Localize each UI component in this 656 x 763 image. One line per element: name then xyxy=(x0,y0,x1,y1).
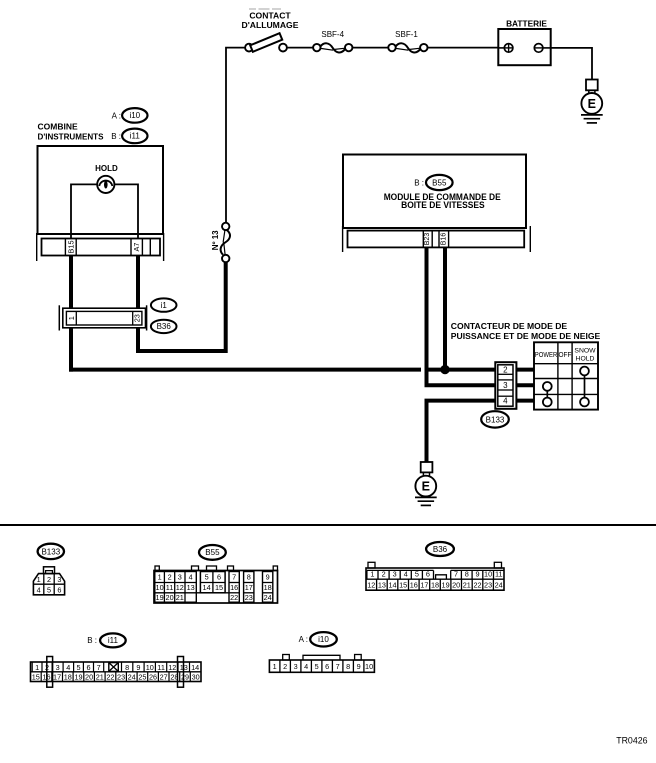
svg-text:7: 7 xyxy=(454,570,458,579)
svg-text:23: 23 xyxy=(117,673,125,682)
svg-text:A7: A7 xyxy=(132,243,141,252)
svg-text:5: 5 xyxy=(205,573,209,582)
faded scan artifact text xyxy=(249,8,281,10)
svg-text:19: 19 xyxy=(74,673,82,682)
connector B55 pinout xyxy=(154,566,278,603)
svg-text:10: 10 xyxy=(484,570,492,579)
svg-text:20: 20 xyxy=(166,593,174,602)
connector i11 pinout xyxy=(31,657,202,688)
indicator lamp HOLD xyxy=(97,176,114,193)
separator rule xyxy=(0,524,656,526)
svg-text:3: 3 xyxy=(503,381,508,390)
switch CONTACT D'ALLUMAGE (blade + contacts) xyxy=(245,33,287,52)
ground E (mode switch) xyxy=(415,462,437,505)
wire: pin B15 down through B36 pin 1 to mode switch pin 2 xyxy=(69,256,73,372)
wire: pin 4 stub to switch grid xyxy=(516,399,534,403)
svg-text:22: 22 xyxy=(230,593,238,602)
wire: pin B23 down to mode switch pin 3 xyxy=(427,247,496,385)
svg-text:POWER: POWER xyxy=(535,352,558,359)
wire: lamp right leg to pin A7 xyxy=(114,184,138,238)
svg-text:B :: B : xyxy=(414,178,424,187)
svg-text:28: 28 xyxy=(170,673,178,682)
svg-text:18: 18 xyxy=(431,581,439,590)
connector i10 pinout xyxy=(269,655,374,673)
svg-text:24: 24 xyxy=(264,593,272,602)
svg-text:14: 14 xyxy=(388,581,396,590)
svg-text:A :: A : xyxy=(299,635,308,644)
svg-text:6: 6 xyxy=(57,586,61,595)
svg-text:B :: B : xyxy=(111,132,121,141)
svg-text:OFF: OFF xyxy=(559,352,572,359)
svg-text:30: 30 xyxy=(192,673,200,682)
svg-text:9: 9 xyxy=(357,662,361,671)
svg-text:17: 17 xyxy=(420,581,428,590)
svg-text:SBF-1: SBF-1 xyxy=(395,30,418,39)
instrument cluster box xyxy=(38,146,164,234)
svg-text:i10: i10 xyxy=(129,111,140,120)
svg-text:B15: B15 xyxy=(66,241,75,254)
svg-text:22: 22 xyxy=(473,581,481,590)
svg-text:1: 1 xyxy=(370,570,374,579)
svg-text:13: 13 xyxy=(180,663,188,672)
svg-text:12: 12 xyxy=(176,583,184,592)
connector B133 (pins 2,3,4) xyxy=(495,362,516,409)
module label text xyxy=(384,192,501,210)
svg-text:3: 3 xyxy=(57,575,61,584)
svg-text:14: 14 xyxy=(191,663,199,672)
svg-text:SNOW: SNOW xyxy=(574,347,596,354)
connector B36 pinout xyxy=(366,562,504,590)
svg-text:20: 20 xyxy=(85,673,93,682)
svg-text:10: 10 xyxy=(146,663,154,672)
svg-text:HOLD: HOLD xyxy=(95,164,118,173)
svg-text:B55: B55 xyxy=(205,548,220,557)
svg-text:D'ALLUMAGE: D'ALLUMAGE xyxy=(242,20,299,30)
svg-text:CONTACTEUR DE MODE DE: CONTACTEUR DE MODE DE xyxy=(451,321,568,331)
svg-text:21: 21 xyxy=(463,581,471,590)
svg-text:B133: B133 xyxy=(41,547,60,556)
fuse SBF-4 xyxy=(313,43,352,52)
svg-text:1: 1 xyxy=(273,662,277,671)
switch CONTACT D'ALLUMAGE label xyxy=(242,11,299,30)
fuse No 13 xyxy=(221,223,230,263)
wire: pin 3 stub to switch grid xyxy=(516,383,534,387)
svg-text:1: 1 xyxy=(158,573,162,582)
svg-text:8: 8 xyxy=(125,663,129,672)
svg-text:13: 13 xyxy=(378,581,386,590)
svg-text:BATTERIE: BATTERIE xyxy=(506,19,547,29)
svg-text:4: 4 xyxy=(503,397,508,406)
label COMBINE D'INSTRUMENTS xyxy=(38,122,104,142)
svg-text:20: 20 xyxy=(452,581,460,590)
svg-text:7: 7 xyxy=(97,663,101,672)
wire: fuse No 13 to pin 23 (A7 branch) xyxy=(138,262,226,351)
svg-text:B23: B23 xyxy=(424,233,431,246)
wire: SBF-4 to SBF-1 xyxy=(352,47,388,49)
grid header SNOW HOLD xyxy=(574,347,596,362)
svg-text:8: 8 xyxy=(346,662,350,671)
connector B133 pinout xyxy=(33,567,64,595)
svg-text:13: 13 xyxy=(187,583,195,592)
connector ref B36 xyxy=(151,320,177,333)
svg-text:11: 11 xyxy=(157,663,165,672)
svg-text:24: 24 xyxy=(495,581,503,590)
svg-text:5: 5 xyxy=(415,570,419,579)
svg-text:9: 9 xyxy=(136,663,140,672)
svg-text:6: 6 xyxy=(325,662,329,671)
svg-text:21: 21 xyxy=(176,593,184,602)
connector ref B133 (pinout) xyxy=(38,544,64,559)
svg-text:3: 3 xyxy=(294,662,298,671)
junction node (B16 joins pin 2 wire) xyxy=(440,365,449,374)
battery BATTERIE xyxy=(498,29,550,65)
svg-text:1: 1 xyxy=(37,575,41,584)
svg-text:COMBINE: COMBINE xyxy=(38,122,78,132)
svg-text:15: 15 xyxy=(399,581,407,590)
wire: battery to ground E (top right) xyxy=(551,48,592,80)
contact circle snow-hold row 2 xyxy=(580,367,589,376)
contact circle power row 4 xyxy=(543,398,552,407)
connector ref B: i11 xyxy=(111,129,147,144)
svg-text:23: 23 xyxy=(484,581,492,590)
connector ref A: i10 (pinout) xyxy=(299,632,337,646)
svg-text:10: 10 xyxy=(156,583,164,592)
svg-text:15: 15 xyxy=(215,583,223,592)
svg-text:19: 19 xyxy=(156,593,164,602)
svg-text:9: 9 xyxy=(266,573,270,582)
svg-text:A :: A : xyxy=(112,112,121,121)
svg-text:2: 2 xyxy=(45,663,49,672)
svg-text:1: 1 xyxy=(67,316,76,320)
svg-text:6: 6 xyxy=(217,573,221,582)
label CONTACTEUR DE MODE DE PUISSANCE ET DE MODE DE NEIGE xyxy=(451,321,601,341)
contact circle snow-hold row 4 xyxy=(580,398,589,407)
connector ref i1 xyxy=(151,298,177,311)
svg-text:8: 8 xyxy=(465,570,469,579)
svg-text:23: 23 xyxy=(133,314,142,322)
svg-text:i11: i11 xyxy=(108,636,119,645)
svg-text:17: 17 xyxy=(245,583,253,592)
wire: pin B16 down to junction on pin 2 wire xyxy=(443,247,447,369)
svg-text:3: 3 xyxy=(178,573,182,582)
svg-text:6: 6 xyxy=(86,663,90,672)
svg-text:4: 4 xyxy=(404,570,408,579)
svg-text:23: 23 xyxy=(245,593,253,602)
connector ref B: i11 (pinout) xyxy=(87,633,125,647)
svg-text:SBF-4: SBF-4 xyxy=(321,30,344,39)
wire: switch to SBF-4 xyxy=(287,47,313,49)
wire: SBF-1 to battery xyxy=(428,47,499,49)
svg-text:7: 7 xyxy=(336,662,340,671)
svg-text:2: 2 xyxy=(382,570,386,579)
wire: pin A7 down through B36 pin 23 xyxy=(136,256,140,354)
svg-text:16: 16 xyxy=(230,583,238,592)
svg-text:5: 5 xyxy=(76,663,80,672)
fuse SBF-1 xyxy=(388,43,427,52)
wire: pin 2 stub to switch grid xyxy=(516,368,534,372)
svg-text:4: 4 xyxy=(37,586,41,595)
svg-text:D'INSTRUMENTS: D'INSTRUMENTS xyxy=(38,132,104,142)
svg-text:2: 2 xyxy=(47,575,51,584)
svg-text:BOITE DE VITESSES: BOITE DE VITESSES xyxy=(401,200,485,210)
svg-text:B36: B36 xyxy=(157,322,172,331)
svg-text:17: 17 xyxy=(53,673,61,682)
svg-text:16: 16 xyxy=(410,581,418,590)
wire: lamp left leg to pin B15 xyxy=(71,184,97,238)
svg-text:2: 2 xyxy=(503,365,508,374)
connector ref B55 (pinout) xyxy=(199,545,226,560)
svg-text:3: 3 xyxy=(393,570,397,579)
svg-text:14: 14 xyxy=(203,583,211,592)
svg-text:9: 9 xyxy=(475,570,479,579)
svg-text:11: 11 xyxy=(166,583,174,592)
svg-text:4: 4 xyxy=(189,573,193,582)
contact link power 3-4 xyxy=(546,391,548,398)
svg-text:18: 18 xyxy=(264,583,272,592)
svg-text:B133: B133 xyxy=(486,415,505,424)
svg-text:29: 29 xyxy=(181,673,189,682)
svg-text:6: 6 xyxy=(426,570,430,579)
connector ref B133 xyxy=(481,411,509,427)
svg-text:16: 16 xyxy=(42,673,50,682)
wire: pin 4 to ground E (bottom) xyxy=(427,401,496,462)
svg-text:27: 27 xyxy=(160,673,168,682)
svg-text:19: 19 xyxy=(442,581,450,590)
svg-text:21: 21 xyxy=(96,673,104,682)
svg-text:10: 10 xyxy=(365,662,373,671)
svg-text:12: 12 xyxy=(168,663,176,672)
svg-text:26: 26 xyxy=(149,673,157,682)
wire: B15/B36 pin1 to mode switch pin 2 (with crossover gap) xyxy=(69,368,495,372)
svg-text:E: E xyxy=(422,480,430,494)
svg-text:E: E xyxy=(588,97,596,111)
connector strip i10/i11 under instrument cluster xyxy=(37,233,164,261)
connector ref A: i10 xyxy=(112,108,148,123)
ground E (battery) xyxy=(581,80,603,123)
svg-text:B16: B16 xyxy=(440,233,447,246)
inline connector i1/B36 xyxy=(59,305,146,330)
svg-text:2: 2 xyxy=(283,662,287,671)
svg-text:25: 25 xyxy=(138,673,146,682)
contact link snow-hold 2-4 xyxy=(584,375,586,397)
svg-text:11: 11 xyxy=(495,570,503,579)
svg-text:5: 5 xyxy=(315,662,319,671)
svg-text:2: 2 xyxy=(168,573,172,582)
svg-text:Nº 13: Nº 13 xyxy=(211,230,220,250)
svg-text:B36: B36 xyxy=(433,545,448,554)
mode switch state grid xyxy=(534,342,598,409)
svg-text:i10: i10 xyxy=(318,635,329,644)
svg-text:PUISSANCE ET DE MODE DE NEIGE: PUISSANCE ET DE MODE DE NEIGE xyxy=(451,331,601,341)
svg-text:i1: i1 xyxy=(161,301,168,310)
svg-text:i11: i11 xyxy=(130,132,141,141)
svg-text:12: 12 xyxy=(367,581,375,590)
module box MODULE DE COMMANDE DE BOITE DE VITESSES xyxy=(343,155,526,229)
connector ref B36 (pinout) xyxy=(426,542,454,556)
svg-text:1: 1 xyxy=(35,663,39,672)
svg-text:B :: B : xyxy=(87,636,97,645)
svg-text:24: 24 xyxy=(128,673,136,682)
svg-text:3: 3 xyxy=(56,663,60,672)
svg-text:B55: B55 xyxy=(432,178,447,187)
svg-text:15: 15 xyxy=(32,673,40,682)
svg-text:4: 4 xyxy=(66,663,70,672)
contact circle power row 3 xyxy=(543,382,552,391)
wire: ignition switch to fuse No 13 (left drop) xyxy=(226,48,249,223)
svg-text:5: 5 xyxy=(47,586,51,595)
svg-text:8: 8 xyxy=(247,573,251,582)
svg-text:18: 18 xyxy=(64,673,72,682)
svg-text:4: 4 xyxy=(304,662,308,671)
svg-text:22: 22 xyxy=(106,673,114,682)
connector ref B: B55 xyxy=(414,175,452,190)
svg-text:TR0426: TR0426 xyxy=(616,736,647,746)
svg-text:HOLD: HOLD xyxy=(576,355,595,362)
connector strip B55 under module xyxy=(343,226,531,252)
svg-text:7: 7 xyxy=(232,573,236,582)
